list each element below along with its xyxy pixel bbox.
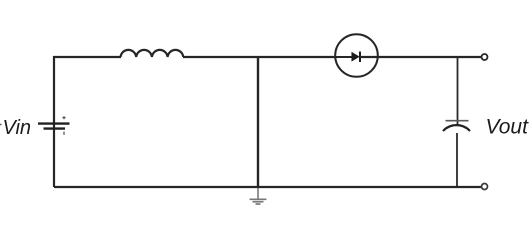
battery minus mark — [63, 132, 65, 135]
wire capacitor branch vertical top — [457, 56, 459, 126]
wire bottom rail — [54, 186, 482, 188]
scan artifact left edge — [0, 124, 2, 126]
svg-text:Vout: Vout — [486, 116, 530, 139]
ground stub — [257, 187, 259, 199]
svg-text:Vin: Vin — [3, 117, 32, 139]
wire from diode to output terminal — [360, 56, 482, 58]
output terminal bottom (open circle) — [482, 184, 488, 190]
wire top segment from Vin to inductor — [53, 56, 121, 58]
wire inside circle to diode anode — [336, 56, 352, 58]
battery V1 top plate — [38, 122, 70, 124]
wire middle vertical (switch node to ground) — [257, 56, 259, 188]
battery plus mark — [62, 116, 65, 119]
output terminal top (open circle) — [482, 54, 488, 60]
capacitor C1 top plate — [446, 120, 469, 122]
battery V1 bottom plate — [44, 127, 66, 129]
ground symbol — [250, 199, 267, 204]
wire left vertical (Vin branch) — [53, 56, 55, 187]
capacitor C1 curved bottom plate — [443, 125, 470, 131]
wire top segment from inductor to diode circle — [183, 56, 336, 58]
diode D1 circle — [335, 34, 378, 77]
wire capacitor branch vertical bottom — [456, 133, 458, 187]
diode D1 triangle — [352, 52, 360, 61]
inductor L1 — [121, 50, 184, 57]
diode D1 cathode bar — [359, 52, 361, 63]
